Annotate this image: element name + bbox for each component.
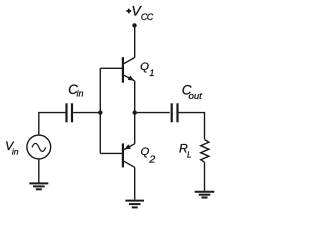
label RL: [179, 142, 192, 160]
power +VCC label: [131, 3, 153, 22]
svg-text:in: in: [77, 89, 84, 99]
wire Cout to RL: [179, 113, 205, 140]
svg-text:2: 2: [148, 153, 155, 165]
node VCC dot: [132, 23, 136, 27]
ground under Vin: [29, 183, 48, 189]
transistor Q2 (PNP): [123, 143, 135, 167]
label Q1: [140, 61, 154, 78]
wire RL to ground: [204, 162, 206, 191]
label Cin: [68, 82, 83, 99]
capacitor Cin: [67, 103, 73, 122]
svg-text:in: in: [12, 146, 19, 156]
svg-text:L: L: [187, 151, 192, 160]
label Q2: [141, 146, 156, 166]
node output junction dot: [133, 110, 137, 114]
wire output node to Q2 emitter: [134, 113, 136, 144]
resistor RL: [201, 140, 209, 163]
ground under RL: [195, 192, 215, 198]
label Vin: [5, 139, 19, 156]
svg-text:CC: CC: [141, 12, 154, 22]
ground under Q2: [125, 201, 144, 208]
node input junction dot: [98, 110, 102, 114]
transistor Q1 (NPN): [123, 57, 135, 83]
label Cout: [182, 82, 202, 102]
capacitor Cout: [172, 103, 178, 122]
wire Q2 base: [100, 152, 123, 154]
wire Q1 emitter to output node: [134, 81, 136, 113]
wire Vin to ground: [38, 159, 40, 183]
wire Q2 collector to ground: [134, 167, 136, 199]
wire base rail: [99, 68, 101, 153]
source Vin (sine): [27, 135, 51, 159]
svg-text:out: out: [189, 91, 203, 102]
wire Vin to Cin: [39, 113, 66, 136]
wire Q1 base: [100, 67, 123, 69]
svg-text:Q: Q: [140, 61, 149, 73]
wire VCC dot to Q1 collector: [134, 25, 136, 57]
wire Cin to input junction: [73, 112, 100, 114]
svg-text:1: 1: [149, 68, 154, 78]
wire output node to Cout: [135, 112, 170, 114]
svg-text:Q: Q: [141, 146, 150, 158]
